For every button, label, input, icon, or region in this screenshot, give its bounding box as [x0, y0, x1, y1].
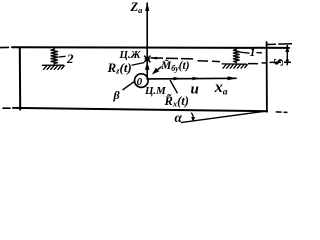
circle at center of mass	[135, 74, 149, 88]
force Rz arrowhead (up along Za)	[145, 62, 150, 70]
node xa axis	[147, 77, 236, 80]
svg-text:α: α	[175, 110, 183, 125]
svg-text:β: β	[113, 88, 121, 102]
road slope line	[181, 111, 267, 123]
svg-text:Za: Za	[130, 0, 144, 15]
force Rx arrowhead on axis	[174, 77, 182, 81]
wire left edge	[19, 48, 21, 110]
node CZh star marker	[144, 56, 150, 63]
node Za axis arrowhead	[145, 2, 149, 11]
wire datum left arrowhead	[150, 57, 157, 60]
svg-text:1: 1	[250, 45, 256, 59]
svg-text:u: u	[191, 81, 199, 97]
S dimension extension bar	[267, 43, 276, 45]
spring 2 (left)	[51, 48, 58, 65]
svg-text:0: 0	[137, 76, 143, 88]
svg-text:2: 2	[66, 51, 74, 66]
small dash right of label 1	[257, 52, 263, 54]
leader Rx label to axis	[170, 80, 178, 93]
wire bottom-left dash	[3, 107, 10, 109]
leader to label 2	[59, 55, 66, 58]
wire right edge	[266, 42, 268, 112]
svg-text:M̃бу(t): M̃бу(t)	[160, 58, 190, 73]
S dimension top arrowhead	[285, 45, 289, 52]
wire top line	[12, 46, 289, 49]
angle alpha arc arrow	[191, 113, 193, 120]
ground hatch under spring 1	[222, 64, 248, 69]
moment M arrow (diagonal to circle)	[155, 67, 162, 73]
wire bottom-right dash	[276, 111, 282, 113]
leader Rz label to axis	[132, 63, 145, 66]
wire bottom line	[13, 108, 267, 111]
node xa axis arrowhead	[228, 76, 238, 80]
S dimension line	[286, 45, 288, 65]
svg-text:Rz(t): Rz(t)	[107, 60, 132, 76]
svg-text:Ц.М: Ц.М	[144, 85, 166, 97]
wire top-left dash	[0, 46, 9, 48]
ground hatch under spring 2	[42, 65, 65, 70]
svg-text:S: S	[272, 58, 287, 66]
svg-text:xa: xa	[214, 79, 228, 98]
node Za axis	[146, 3, 148, 79]
leader to label 1	[239, 52, 250, 53]
wire datum dashed line with left arrow at CZh	[151, 58, 292, 64]
velocity u arrowhead on axis	[193, 77, 201, 81]
svg-text:R̃x(t): R̃x(t)	[164, 94, 189, 109]
S dimension bottom arrowhead	[286, 60, 289, 66]
beta leader	[123, 81, 136, 90]
spring 1 (right)	[233, 48, 239, 63]
